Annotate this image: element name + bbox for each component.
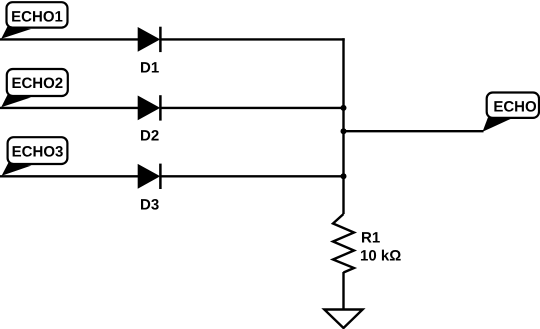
svg-text:ECHO2: ECHO2 (11, 75, 63, 92)
ground (324, 310, 362, 329)
wire D1 cathode to bus top corner (160, 38, 344, 40)
wire output node to ECHO flag (344, 130, 484, 132)
wire ECHO3 to D3 anode (0, 175, 139, 177)
net flag ECHO (output) (483, 93, 540, 132)
wire D2 cathode to bus (160, 107, 343, 109)
net flag ECHO2 (1, 69, 68, 107)
wire resistor R1 bottom lead to ground (342, 272, 344, 310)
svg-text:ECHO3: ECHO3 (12, 143, 64, 160)
svg-text:D1: D1 (140, 60, 159, 77)
diode D2 (138, 95, 161, 120)
svg-text:ECHO1: ECHO1 (11, 9, 63, 26)
junction node output branch (341, 128, 347, 134)
net flag ECHO3 (2, 137, 68, 176)
wire ECHO2 to D2 anode (0, 107, 139, 109)
wire D3 cathode to bus (160, 175, 343, 177)
diode D1 (138, 27, 161, 52)
svg-text:D3: D3 (140, 197, 159, 214)
junction node D3 wire to bus (341, 173, 347, 179)
svg-text:D2: D2 (140, 128, 159, 145)
svg-text:ECHO: ECHO (493, 99, 537, 116)
wire vertical bus from D1 row down to resistor R1 top (342, 38, 344, 214)
svg-text:R1: R1 (361, 230, 380, 247)
diode D3 (138, 164, 161, 189)
net flag ECHO1 (1, 2, 67, 39)
junction node D2 wire to bus (341, 105, 347, 111)
svg-text:10 kΩ: 10 kΩ (360, 248, 401, 265)
resistor R1 (333, 214, 354, 273)
wire ECHO1 to D1 anode (0, 38, 139, 40)
